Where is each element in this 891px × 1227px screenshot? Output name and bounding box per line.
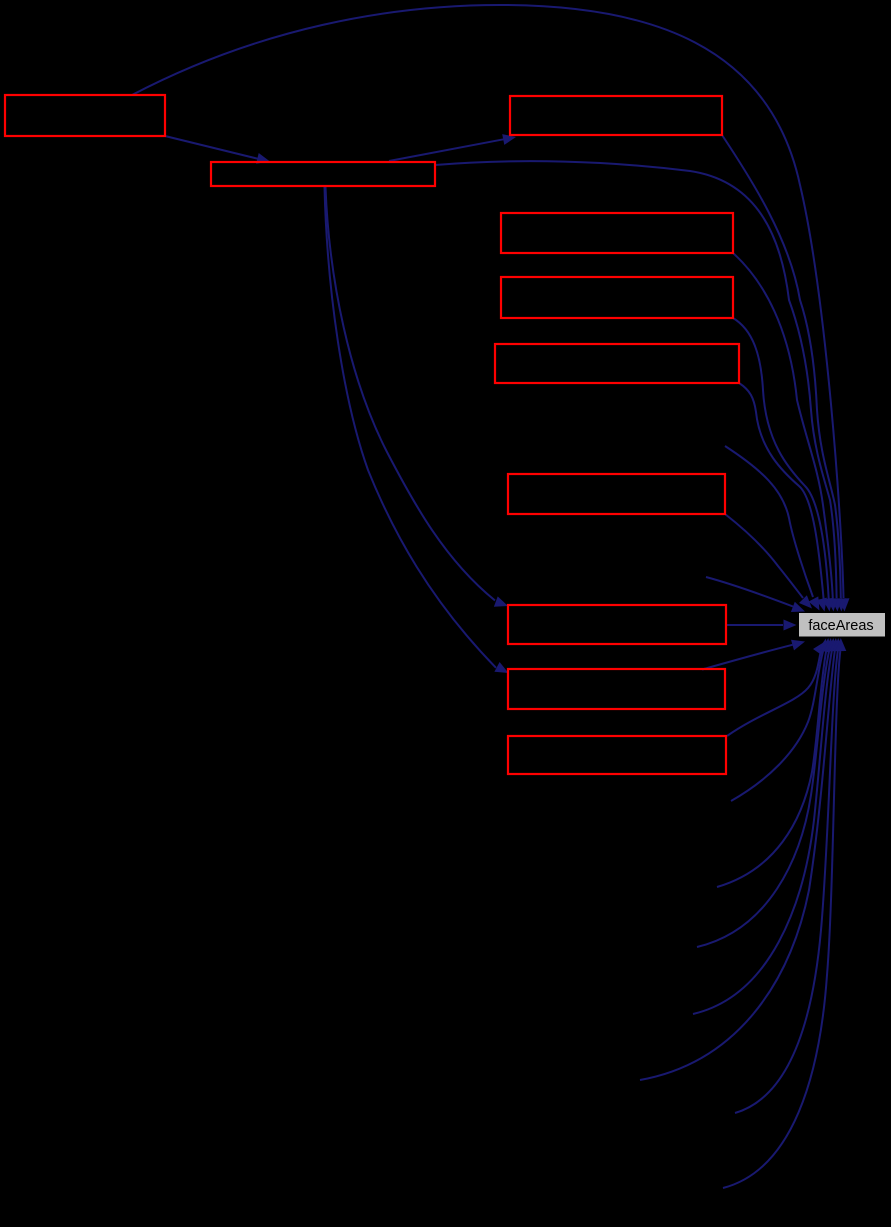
- arrowhead box8->faceAreas: [784, 620, 797, 631]
- edge box10->faceAreas: [727, 653, 821, 737]
- edge box1->faceAreas: [132, 5, 844, 598]
- edge hiddenA->faceAreas: [725, 446, 813, 597]
- arrowhead hiddenC->faceAreas: [821, 638, 832, 652]
- edge box8->faceAreas: [726, 624, 783, 626]
- arrowhead box9->faceAreas: [791, 640, 805, 651]
- node box2: [211, 162, 435, 186]
- node box7: [508, 474, 725, 514]
- node box5: [501, 277, 733, 318]
- arrowhead box3->faceAreas: [835, 598, 846, 611]
- arrowhead box1->box2: [256, 153, 270, 164]
- arrowhead box2->box3: [502, 134, 516, 145]
- arrowhead box2->box9: [494, 662, 508, 673]
- edge box2->box8: [326, 187, 496, 601]
- edge hiddenF->faceAreas: [640, 651, 835, 1080]
- edge hiddenH->faceAreas: [723, 651, 840, 1188]
- node box6: [495, 344, 739, 383]
- edge box6->faceAreas: [739, 383, 824, 600]
- arrowhead box2->box8: [494, 596, 508, 606]
- arrowhead box1->faceAreas: [839, 598, 850, 611]
- edge box4->faceAreas: [733, 253, 833, 599]
- edge hiddenC->faceAreas: [717, 651, 826, 887]
- arrowhead box10->faceAreas: [813, 642, 825, 656]
- node box10: [508, 736, 726, 774]
- edge box2->faceAreas: [435, 161, 837, 598]
- node box3: [510, 96, 722, 135]
- arrowhead box2->faceAreas: [831, 598, 842, 611]
- arrowhead hiddenE->faceAreas: [827, 638, 838, 651]
- edge box5->faceAreas: [733, 318, 829, 599]
- arrowhead hiddenA->faceAreas: [809, 596, 820, 610]
- node box8: [508, 605, 726, 644]
- edge hiddenE->faceAreas: [693, 651, 832, 1014]
- edge hiddenI->faceAreas: [706, 577, 793, 607]
- arrowhead hiddenD->faceAreas: [824, 638, 835, 651]
- arrowhead hiddenI->faceAreas: [791, 602, 805, 612]
- arrowhead box4->faceAreas: [827, 598, 838, 611]
- edge box9->faceAreas: [702, 645, 793, 670]
- node box1: [5, 95, 165, 136]
- edge box2->box3: [389, 139, 504, 161]
- node faceAreas: [799, 613, 885, 637]
- node box9: [508, 669, 725, 709]
- arrowhead box7->faceAreas: [799, 595, 812, 608]
- arrowhead hiddenB->faceAreas: [818, 639, 829, 653]
- arrowhead box5->faceAreas: [823, 598, 834, 612]
- arrowhead hiddenH->faceAreas: [835, 638, 846, 651]
- edge hiddenD->faceAreas: [697, 651, 829, 947]
- arrowhead hiddenG->faceAreas: [833, 638, 844, 651]
- edge box3->faceAreas: [722, 135, 841, 598]
- edge hiddenB->faceAreas: [731, 651, 823, 801]
- node box4: [501, 213, 733, 253]
- edge hiddenG->faceAreas: [735, 651, 838, 1113]
- edge box1->box2: [165, 136, 258, 159]
- edge box7->faceAreas: [725, 514, 803, 598]
- arrowhead box6->faceAreas: [816, 598, 827, 612]
- svg-text:faceAreas: faceAreas: [808, 618, 873, 634]
- edge box2->box9: [325, 187, 497, 668]
- arrowhead hiddenF->faceAreas: [830, 638, 841, 651]
